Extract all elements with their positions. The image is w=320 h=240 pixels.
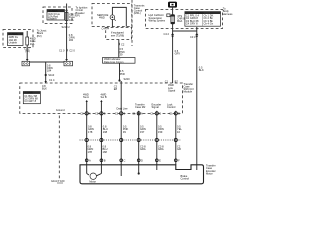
fuse block B detail table [8,32,24,46]
svg-text:GRA: GRA [140,147,146,151]
svg-text:Underh: Underh [48,17,57,21]
svg-text:4WD: 4WD [99,15,105,19]
box label right [206,164,216,176]
svg-text:B7: B7 [175,79,179,83]
table G inside band [23,91,40,104]
svg-text:C3 3: C3 3 [190,35,196,39]
svg-text:S220: S220 [124,77,131,81]
svg-text:(P2): (P2) [37,34,42,38]
svg-text:C1: C1 [132,111,136,115]
svg-text:C2: C2 [121,42,125,46]
wire 172 labels [175,49,181,56]
svg-text:C4 GRY 8: C4 GRY 8 [186,21,198,25]
wire from box2 down to band [119,63,121,80]
svg-text:D: D [178,111,180,115]
svg-text:GRY: GRY [175,51,181,55]
labels below J [88,145,182,154]
svg-text:168: 168 [103,150,108,154]
svg-text:159: 159 [158,130,163,134]
splice dot [118,79,120,81]
label right of box A [76,6,88,18]
svg-text:BLK: BLK [199,68,204,72]
instrument cluster dashed box [92,4,132,27]
contact box right [64,61,73,66]
dashed option box below cluster [106,27,132,39]
mid labels between H and J [88,125,182,134]
svg-text:Control: Control [167,105,176,109]
center tap wire down [45,62,47,83]
splice S110 [45,74,47,76]
svg-text:B: B [104,159,106,163]
svg-text:184: 184 [69,38,74,42]
svg-text:E8: E8 [114,87,118,91]
svg-text:B: B [124,111,126,115]
svg-text:C: C [124,159,126,163]
fuse block A detail table [47,9,65,21]
svg-text:A: A [89,159,91,163]
dotted connector line J [80,139,182,141]
svg-text:E: E [159,159,161,163]
inline connectors above motor box [85,159,180,163]
svg-text:Case Mtr: Case Mtr [135,105,146,109]
wire 121 through band [120,83,122,165]
band corner label [184,82,194,94]
svg-text:C1: C1 [165,79,169,83]
reference box 2 [103,58,136,64]
connector triangles on wire 197 [195,33,198,35]
long wire to encoder motor [196,27,198,165]
svg-text:C1: C1 [169,111,173,115]
dashed box D [146,10,223,29]
wire from 4TS down to band [172,24,174,83]
note text in D [149,13,166,22]
wire from option box down [118,40,120,58]
svg-text:C2: C2 [115,111,119,115]
signal labels above H [135,103,146,110]
svg-text:(IP): (IP) [76,13,80,17]
label right of E [134,3,145,15]
table top right [185,11,221,26]
svg-text:Data Line: Data Line [117,107,129,111]
svg-text:PNK: PNK [120,72,126,76]
svg-text:see (T1/96): see (T1/96) [111,33,124,37]
svg-text:10A: 10A [69,18,74,22]
svg-text:10A: 10A [30,42,35,46]
dashed vertical E [131,0,133,46]
svg-text:C1 4: C1 4 [49,78,55,82]
svg-text:A: A [89,111,91,115]
svg-text:B: B [104,111,106,115]
internal wires in motor box [120,165,122,176]
svg-text:C4 2: C4 2 [164,32,170,36]
bus wire connecting contact boxes [30,61,65,63]
wire lock control [175,111,177,165]
svg-text:G111 P 160: G111 P 160 [51,179,65,183]
svg-text:D: D [141,159,143,163]
svg-text:BLK: BLK [42,86,47,90]
connector triangles on wire 172 [171,33,174,35]
TCM band dashed rectangle [20,83,183,113]
svg-text:(MFL): (MFL) [134,11,141,15]
wire from fuse B down [26,48,28,61]
contact box left [22,61,30,66]
top right black connector icon [168,2,177,8]
fuse block B dashed box (left) [3,30,33,48]
svg-text:Control: Control [181,177,190,181]
svg-text:Harness: Harness [223,12,233,16]
svg-text:C: C [159,111,161,115]
svg-text:S210 2: S210 2 [62,25,71,29]
wire from fuse A down [66,24,68,61]
svg-text:Data Line Comm: Data Line Comm [104,60,123,64]
svg-text:178: 178 [88,130,93,134]
svg-text:C2: C2 [80,111,84,115]
svg-text:Module: Module [184,90,193,94]
wire loop in cluster [112,7,126,26]
wire encoder signal [156,111,158,165]
svg-text:Signal: Signal [168,88,176,92]
svg-text:Motor: Motor [89,180,96,184]
dashed ground wire [58,116,60,180]
svg-text:178: 178 [88,150,93,154]
fuse F1 [65,4,68,24]
svg-text:C1: C1 [150,111,154,115]
connector circles at H line [85,112,177,115]
svg-text:C1 0: C1 0 [59,48,65,52]
svg-text:(T2): (T2) [25,49,30,53]
ground symbol label [51,179,65,183]
svg-text:Ch 4 Gn: Ch 4 Gn [204,21,214,25]
svg-text:GRA: GRA [158,147,164,151]
svg-text:Wiring System: Wiring System [149,18,166,22]
svg-text:Ground: Ground [56,108,65,112]
svg-text:Sw A: Sw A [83,95,89,99]
svg-text:A: A [141,111,143,115]
svg-text:168: 168 [103,130,108,134]
svg-text:S110: S110 [48,73,54,77]
label right of box B [37,29,47,38]
svg-text:C2: C2 [95,111,99,115]
svg-text:Motor: Motor [206,171,213,175]
pin labels at H connectors [80,107,180,116]
bus wire top right [173,30,197,32]
svg-text:Signal: Signal [152,105,160,109]
svg-text:C3 GRY 8: C3 GRY 8 [24,99,36,103]
svg-text:GR: GR [177,147,181,151]
component 4TS [171,8,175,24]
svg-text:184: 184 [47,69,52,73]
service 4WD lamp [110,15,116,21]
fuse block A dashed box (top middle) [43,7,72,24]
wires with arrows above band H line [83,92,89,164]
svg-text:B4A: B4A [177,19,182,23]
fuse F2 [26,31,29,48]
motor circle [87,165,102,184]
svg-text:C2 0: C2 0 [69,48,75,52]
transfer case encoder motor box [80,165,204,184]
inline connector on wire [59,48,75,52]
svg-text:Sw B: Sw B [101,95,107,99]
lamp label [97,13,109,20]
svg-text:157: 157 [140,130,145,134]
wire transfer case motor [138,111,140,165]
wire 197 labels [199,66,204,73]
svg-text:Underh: Underh [9,41,18,45]
label right of table [223,7,233,16]
